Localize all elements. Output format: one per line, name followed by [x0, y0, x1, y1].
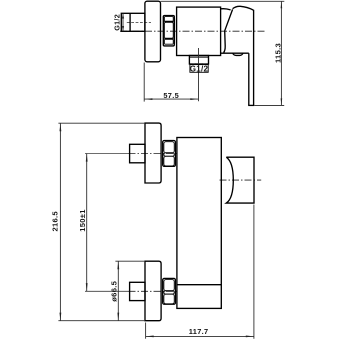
svg-text:117.7: 117.7: [189, 327, 209, 336]
svg-text:216.5: 216.5: [51, 211, 60, 232]
svg-text:G1/2: G1/2: [190, 65, 209, 74]
svg-text:115.3: 115.3: [274, 43, 283, 63]
svg-text:ø66.5: ø66.5: [109, 280, 118, 301]
svg-text:57.5: 57.5: [163, 91, 179, 100]
svg-text:G1/2: G1/2: [113, 14, 122, 31]
svg-text:150±1: 150±1: [78, 209, 87, 232]
